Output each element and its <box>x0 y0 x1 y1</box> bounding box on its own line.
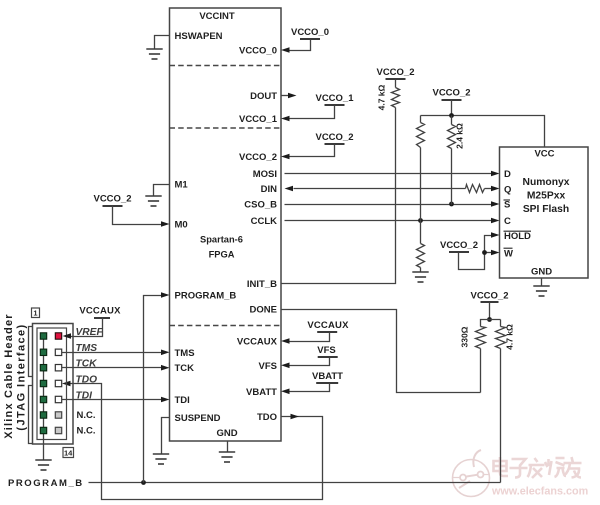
wire MOSI to flash D <box>285 173 492 175</box>
node junction CCLK termination <box>418 218 423 223</box>
wire VBATT to FPGA <box>290 384 330 392</box>
wire branch to W pin <box>485 252 492 254</box>
svg-text:M25Pxx: M25Pxx <box>527 190 566 201</box>
resistor R2 CCLK pullup <box>417 116 425 221</box>
wire VFS to FPGA <box>290 358 330 366</box>
power VCCO_1 <box>325 104 345 106</box>
svg-text:HSWAPEN: HSWAPEN <box>175 31 223 42</box>
wire flash GND to ground <box>541 279 543 287</box>
svg-text:330Ω: 330Ω <box>460 326 470 347</box>
svg-text:VCCO_2: VCCO_2 <box>93 193 131 204</box>
svg-text:TDI: TDI <box>76 390 93 401</box>
svg-text:GND: GND <box>216 428 237 439</box>
resistor R5 330 ohm DONE pullup <box>476 320 501 393</box>
svg-text:N.C.: N.C. <box>77 410 96 421</box>
flash pin label S with overline <box>504 200 511 211</box>
wire VCCO_2 stem to VCC rail <box>451 100 453 116</box>
ground CCLK termination <box>412 271 428 273</box>
JTAG header pin 5 (GND) <box>40 365 46 371</box>
ground M1 <box>145 195 161 197</box>
resistor R3 2.4k CSO_B pullup <box>448 116 456 205</box>
wire header ground bus <box>43 337 45 460</box>
svg-text:VCCO_1: VCCO_1 <box>239 114 278 125</box>
svg-text:TDI: TDI <box>175 395 190 406</box>
svg-text:TMS: TMS <box>175 348 195 359</box>
resistor R1 4.7k INIT_B pullup <box>392 88 400 108</box>
wire VCCO_2 to M0 <box>113 206 162 225</box>
svg-text:www.elecfans.com: www.elecfans.com <box>491 486 588 498</box>
svg-text:VREF: VREF <box>76 327 104 338</box>
svg-text:VBATT: VBATT <box>246 387 277 398</box>
node junction VCC rail <box>449 113 454 118</box>
svg-text:SUSPEND: SUSPEND <box>175 413 221 424</box>
resistor series on DIN <box>466 185 485 193</box>
svg-text:VCC: VCC <box>534 149 554 160</box>
svg-text:DONE: DONE <box>250 305 277 316</box>
wire resistor to flash Q <box>485 188 492 190</box>
JTAG header pin 13 (GND) <box>40 427 46 433</box>
svg-text:VCCO_2: VCCO_2 <box>239 152 277 163</box>
svg-text:DIN: DIN <box>261 184 278 195</box>
power VCCO_2 for DONE and PROGRAM_B pullups <box>481 301 499 303</box>
svg-text:VFS: VFS <box>317 345 335 356</box>
svg-text:TDO: TDO <box>76 374 98 385</box>
svg-text:2.4 kΩ: 2.4 kΩ <box>455 123 465 149</box>
ground flash <box>533 285 549 287</box>
node junction PROGRAM_B <box>141 480 146 485</box>
ground HSWAPEN <box>146 48 162 50</box>
svg-text:CCLK: CCLK <box>251 216 278 227</box>
power VCCAUX <box>317 331 337 333</box>
FPGA U1 Spartan-6 outline <box>170 8 282 441</box>
power VFS <box>318 356 338 358</box>
svg-text:VCCO_2: VCCO_2 <box>470 290 508 301</box>
wire TMS header to FPGA <box>62 352 162 354</box>
JTAG header pin 12 (N.C.) <box>55 412 61 418</box>
svg-text:VCCO_2: VCCO_2 <box>315 132 353 143</box>
svg-text:VCCO_0: VCCO_0 <box>291 27 329 38</box>
JTAG header bracket bottom <box>29 386 33 444</box>
wire VCCAUX to FPGA <box>290 333 330 342</box>
FPGA bank divider dashed line 2 <box>170 127 282 129</box>
svg-text:MOSI: MOSI <box>253 169 277 180</box>
svg-text:VCCAUX: VCCAUX <box>307 320 349 331</box>
svg-text:VCCAUX: VCCAUX <box>237 337 278 348</box>
svg-text:C: C <box>504 216 511 227</box>
wire VCCO_2 stem <box>489 303 491 320</box>
svg-text:Q: Q <box>504 185 511 196</box>
wire DONE net <box>282 310 481 393</box>
flash pin label W with overline <box>504 248 514 259</box>
wire DOUT output stub <box>282 95 289 97</box>
svg-text:VCCO_0: VCCO_0 <box>239 45 277 56</box>
JTAG header pin 3 (GND) <box>40 349 46 355</box>
wire VCCO_0 to FPGA <box>290 40 311 51</box>
power VCCO_2 bank2 <box>325 143 345 145</box>
svg-text:TDO: TDO <box>257 412 277 423</box>
JTAG header bracket top <box>29 327 33 377</box>
JTAG header J1 pin 1 marker <box>32 308 40 318</box>
JTAG header J1 outline <box>33 324 74 445</box>
FPGA bank divider dashed line 1 <box>170 65 282 67</box>
wire VCCO_2 to FPGA <box>290 145 335 157</box>
wire TDO from FPGA to header <box>71 384 323 500</box>
svg-text:D: D <box>504 169 511 180</box>
resistor R4 CCLK pulldown <box>417 221 425 273</box>
svg-text:PROGRAM_B: PROGRAM_B <box>8 478 84 489</box>
wire FPGA GND pin to ground <box>227 442 229 453</box>
JTAG header pin 1 (GND) <box>40 333 46 339</box>
svg-text:VCCINT: VCCINT <box>199 11 235 22</box>
svg-text:TCK: TCK <box>175 363 195 374</box>
svg-text:VCCO_2: VCCO_2 <box>432 87 470 98</box>
svg-text:CSO_B: CSO_B <box>244 200 277 211</box>
svg-text:M0: M0 <box>175 220 188 231</box>
flash title Numonyx M25Pxx SPI Flash <box>523 177 570 215</box>
svg-text:W: W <box>504 248 513 259</box>
JTAG header rotated title <box>3 313 28 439</box>
svg-text:VCCO_1: VCCO_1 <box>315 93 354 104</box>
svg-text:VFS: VFS <box>259 361 277 372</box>
svg-text:(JTAG Interface): (JTAG Interface) <box>16 323 28 430</box>
svg-text:VCCO_2: VCCO_2 <box>440 240 478 251</box>
watermark chinese text <box>494 457 582 478</box>
svg-text:VBATT: VBATT <box>312 371 343 382</box>
ground FPGA GND <box>219 451 235 453</box>
power VCCO_2 for M0 <box>103 205 123 207</box>
svg-text:TMS: TMS <box>76 343 98 354</box>
svg-text:14: 14 <box>64 449 73 458</box>
svg-text:4.7 kΩ: 4.7 kΩ <box>505 324 515 350</box>
wire VCC rail to flash <box>421 116 545 148</box>
SPI flash U2 Numonyx M25Pxx outline <box>500 147 589 278</box>
node junction W pin <box>482 250 487 255</box>
wire TDI header to FPGA <box>62 399 162 401</box>
JTAG header pin 2 (VREF) <box>55 333 61 339</box>
wire CSO_B to flash S <box>285 204 492 206</box>
svg-text:FPGA: FPGA <box>209 250 235 260</box>
power VBATT <box>316 382 338 384</box>
svg-text:TCK: TCK <box>76 359 98 370</box>
JTAG header pin 14 marker <box>63 448 74 458</box>
flash pin label HOLD with overline <box>504 231 532 242</box>
wire TCK header to FPGA <box>62 367 162 369</box>
wire SUSPEND to ground <box>162 418 170 454</box>
JTAG header pin 8 (TDO) <box>55 380 61 386</box>
wire VCCO_1 to FPGA <box>290 106 335 119</box>
power VCCO_2 for HOLD and W <box>449 251 469 253</box>
svg-text:M1: M1 <box>175 180 189 191</box>
wire VCCO_2 to HOLD and W <box>459 236 492 270</box>
svg-text:VCCO_2: VCCO_2 <box>376 67 414 78</box>
svg-text:GND: GND <box>531 266 552 277</box>
svg-text:VCCAUX: VCCAUX <box>79 305 121 316</box>
wire VCCAUX to VREF pin <box>71 318 103 337</box>
wire CCLK to flash C <box>285 220 492 222</box>
wire M1 to ground <box>154 185 170 197</box>
JTAG header pin 11 (GND) <box>40 412 46 418</box>
ground JTAG header <box>35 459 51 461</box>
node junction pullup pair <box>487 317 492 322</box>
FPGA title Spartan-6 FPGA <box>200 235 243 260</box>
wire VCCO_2 to resistor <box>395 80 397 88</box>
JTAG header pin 10 (TDI) <box>55 396 61 402</box>
svg-text:PROGRAM_B: PROGRAM_B <box>175 291 237 302</box>
watermark elecfans logo circle <box>453 450 490 497</box>
svg-text:S: S <box>504 200 510 211</box>
wire DIN from flash Q left part <box>294 188 466 190</box>
svg-text:INIT_B: INIT_B <box>247 279 277 290</box>
power VCCAUX for VREF <box>94 317 110 319</box>
wire PROGRAM_B bottom rail <box>89 482 501 484</box>
svg-text:DOUT: DOUT <box>250 91 277 102</box>
node junction CSO_B pullup <box>449 202 454 207</box>
wire HSWAPEN to ground <box>155 36 170 50</box>
svg-text:HOLD: HOLD <box>504 231 531 242</box>
svg-text:Xilinx Cable Header: Xilinx Cable Header <box>3 313 15 439</box>
svg-text:Spartan-6: Spartan-6 <box>200 235 243 245</box>
svg-text:4.7 kΩ: 4.7 kΩ <box>377 84 387 110</box>
svg-text:N.C.: N.C. <box>77 426 96 437</box>
power VCCO_0 <box>300 38 320 40</box>
JTAG header pin 6 (TCK) <box>55 365 61 371</box>
wire INIT_B net <box>282 108 396 284</box>
JTAG header pin 4 (TMS) <box>55 349 61 355</box>
svg-text:1: 1 <box>33 309 37 318</box>
ground SUSPEND <box>153 453 169 455</box>
FPGA bank divider dashed line 3 <box>170 325 282 327</box>
JTAG header pin 9 (GND) <box>40 396 46 402</box>
svg-text:SPI Flash: SPI Flash <box>523 204 569 215</box>
JTAG header pin 7 (GND) <box>40 380 46 386</box>
wire PROGRAM_B to FPGA <box>144 296 162 483</box>
resistor R6 4.7k PROGRAM_B pullup <box>496 320 506 483</box>
power VCCO_2 for flash VCC <box>442 99 462 101</box>
JTAG header pin 14 (N.C.) <box>55 427 61 433</box>
power VCCO_2 for INIT_B pullup <box>386 78 406 80</box>
svg-text:Numonyx: Numonyx <box>523 177 570 188</box>
